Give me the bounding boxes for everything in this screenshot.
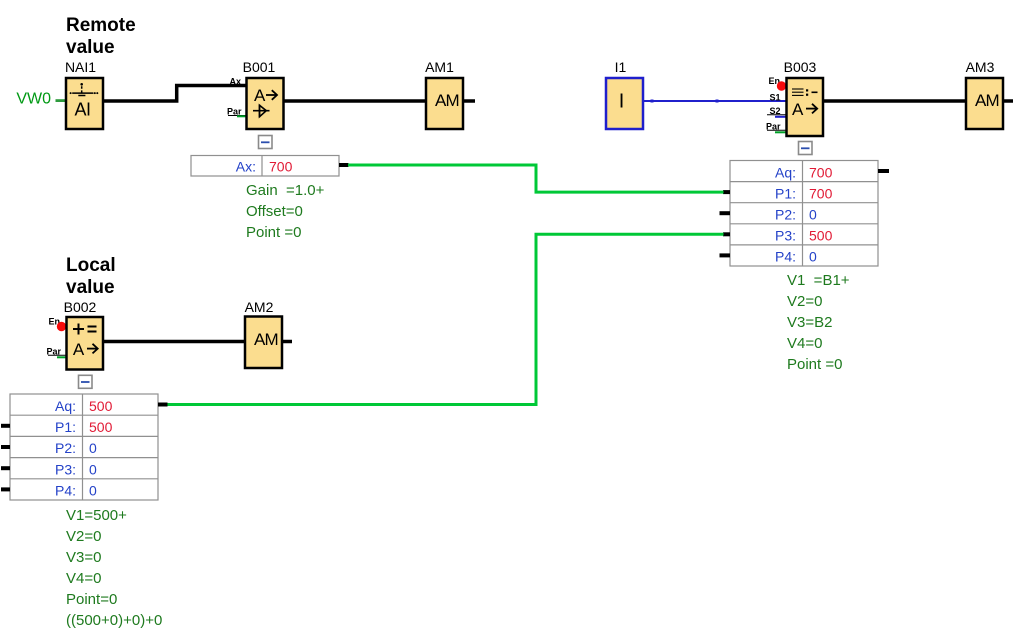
svg-text:500: 500 [89,398,113,414]
block I1 digital input [606,78,643,129]
svg-text:P3:: P3: [55,461,76,477]
svg-text:AM3: AM3 [966,59,995,75]
svg-text:Aq:: Aq: [55,398,76,414]
svg-text:700: 700 [809,185,833,201]
wire S2 stub of B003 (blue) [775,116,787,118]
svg-text:S1: S1 [769,93,780,103]
svg-text:P2:: P2: [775,207,796,223]
tick B002 P4 input [1,487,10,491]
svg-text:500: 500 [809,228,833,244]
pin line Par of B002 [48,354,67,356]
svg-text:P1:: P1: [775,185,796,201]
svg-text:500: 500 [89,419,113,435]
block B002 analog math [67,317,104,370]
tick B003 P1 input [723,190,730,194]
block NAI1 analog input AI [66,78,103,129]
block AM1 analog flag [426,78,463,129]
svg-text:B001: B001 [243,59,276,75]
wire B001 output to AM1 [284,99,427,103]
svg-text:Point =0: Point =0 [787,356,842,373]
tick B002 P2 input [1,445,10,449]
block AM3 analog flag [966,78,1003,129]
svg-text:Aq:: Aq: [775,164,796,180]
tick B003 P2 input [720,211,731,215]
parameter table of B003 [730,161,878,267]
wire Par stub of B002 (green) [57,356,67,358]
pin line Par of B001 [228,115,247,117]
svg-text:V4=0: V4=0 [787,335,822,352]
tick B002 P1 input [1,424,10,428]
svg-text:B002: B002 [64,299,97,315]
svg-text:I1: I1 [615,59,627,75]
parameter table of B002 [10,394,158,500]
tick B003 P4 input [720,253,731,257]
block AM2 analog flag [245,317,282,369]
red dot En of B003 [777,81,786,90]
pin line Par of B003 [767,129,787,131]
comment "Remote value" [66,15,136,58]
svg-text:value: value [66,277,115,298]
svg-text:AM: AM [435,91,459,110]
tick B003 P3 input [723,232,730,236]
svg-text:700: 700 [269,158,293,174]
svg-text:Point =0: Point =0 [246,224,301,241]
wire B003 output to AM3 [823,99,966,103]
svg-text:P1:: P1: [55,419,76,435]
comment V-values under B003 [787,272,850,373]
svg-text:V1 =B1+: V1 =B1+ [787,272,850,289]
svg-text:value: value [66,37,115,58]
svg-text:A: A [792,100,804,119]
svg-text:V3=B2: V3=B2 [787,314,832,331]
svg-text:A: A [254,86,266,105]
wire AM1 output stub [463,99,475,103]
svg-text:((500+0)+0)+0: ((500+0)+0)+0 [66,612,162,629]
svg-text:0: 0 [809,249,817,265]
wire Par stub of B003 (green) [775,131,787,133]
wire green net1: B001 param to B003 P1 [348,165,724,192]
svg-text:P2:: P2: [55,440,76,456]
wire green net2: B002 Aq to B003 P3 [167,234,724,404]
wire AM2 output stub [282,340,292,344]
collapse button of B002 [79,375,93,388]
svg-text:A: A [73,340,85,359]
junction waypoint 1 on blue wire [651,100,654,103]
comment "Local value" [66,255,116,298]
svg-text:P3:: P3: [775,228,796,244]
svg-text:B003: B003 [784,59,817,75]
svg-text:VW0: VW0 [16,91,51,108]
svg-text:Ax:: Ax: [236,158,256,174]
svg-text:V3=0: V3=0 [66,549,101,566]
svg-text:P4:: P4: [55,483,76,499]
tick B002 Aq output [158,403,168,407]
wire AM3 output stub [1003,99,1013,103]
svg-text:0: 0 [89,483,97,499]
svg-text:Gain =1.0+: Gain =1.0+ [246,182,325,199]
svg-text:V1=500+: V1=500+ [66,507,127,524]
svg-text:V2=0: V2=0 [787,293,822,310]
svg-text:Point=0: Point=0 [66,591,117,608]
comment V-values under B002 [66,507,162,629]
wire Par stub of B001 (green) [237,115,247,117]
wire AI output to B001 Ax input (stepped) [103,86,247,102]
svg-text:0: 0 [809,207,817,223]
tick B003 Aq output [878,169,889,173]
wire B002 output to AM2 [103,340,245,344]
tick B002 P3 input [1,466,10,470]
tick B001 box output [339,163,349,167]
svg-text:V2=0: V2=0 [66,528,101,545]
svg-text:AM1: AM1 [425,59,454,75]
block B001 amplifier [247,78,284,129]
svg-text:I: I [619,91,625,113]
svg-text:AI: AI [74,99,90,119]
svg-text:Ax: Ax [229,77,241,87]
svg-text:P4:: P4: [775,249,796,265]
svg-text:Remote: Remote [66,15,136,36]
junction waypoint 2 on blue wire [716,100,719,103]
svg-text:0: 0 [89,440,97,456]
svg-text:V4=0: V4=0 [66,570,101,587]
svg-text:AM: AM [254,330,278,349]
svg-text:Offset=0: Offset=0 [246,203,303,220]
pin line S2 of B003 [767,114,787,116]
svg-text:0: 0 [89,461,97,477]
svg-text:Local: Local [66,255,116,276]
comment gain under B001 [246,182,325,241]
collapse button of B001 [259,136,273,149]
parameter box of B001 (Ax: 700) [191,156,339,177]
wire VW0 to AI (green stub) [56,99,67,102]
svg-text:AM: AM [975,91,999,110]
red dot En of B002 [57,322,66,331]
svg-text:AM2: AM2 [245,299,274,315]
wire I1 output to B003 S1 (blue) [643,100,787,102]
svg-text:NAI1: NAI1 [65,59,96,75]
svg-text:700: 700 [809,164,833,180]
collapse button of B003 [799,142,813,155]
block B003 analog multiplexer [787,78,824,136]
